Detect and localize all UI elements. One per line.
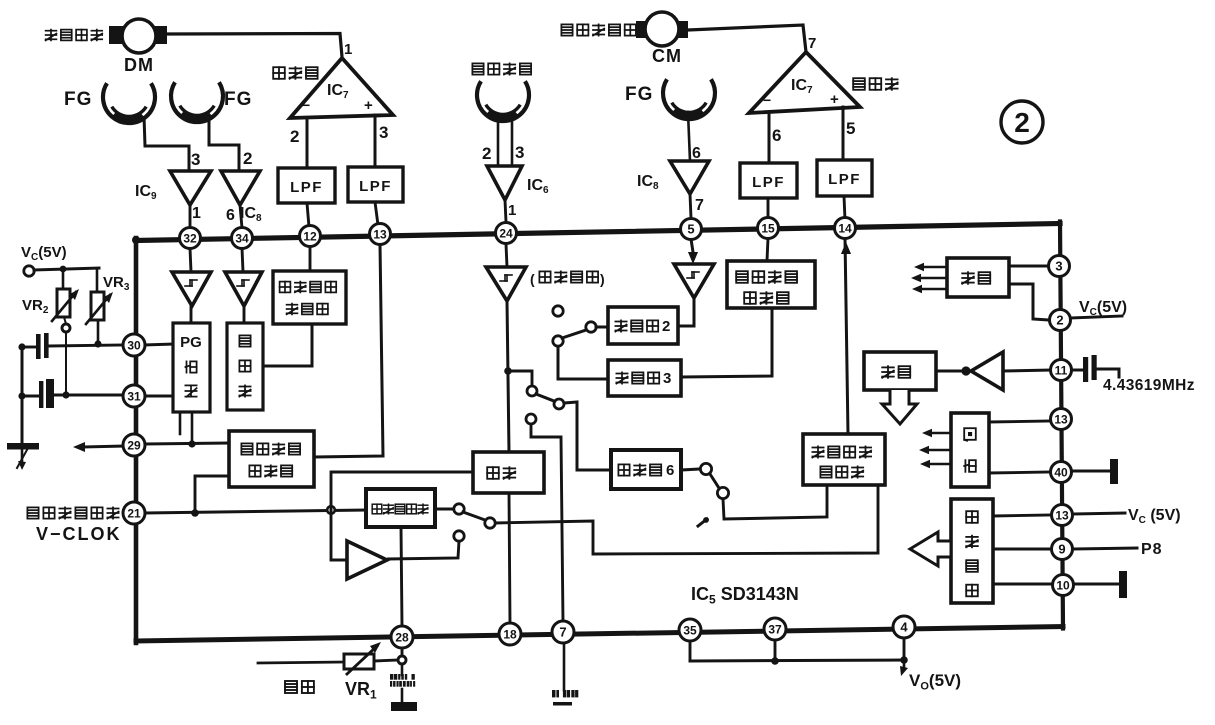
svg-text:VO(5V): VO(5V)	[909, 671, 961, 692]
wire FG-C to IC8R	[688, 112, 690, 161]
switch S5 contact	[717, 487, 728, 498]
block digital phase comparator left (数字相位比较器)	[229, 431, 314, 487]
wire VR2 contact to C2 net	[65, 332, 67, 394]
label 跟踪 (tracking)	[285, 681, 297, 693]
svg-text:V−CLOK: V−CLOK	[36, 524, 122, 544]
wire shaping amp to PG block	[190, 306, 193, 323]
left rail to ground	[21, 347, 24, 446]
svg-text:35: 35	[683, 623, 697, 637]
wire buffer input	[331, 559, 347, 562]
switch S2 pole	[554, 399, 564, 409]
wire pin21 net to buffer/muting	[330, 510, 333, 560]
amp IC9 (FG amp)	[170, 171, 211, 205]
wire pin15 to speed comparator R	[767, 238, 768, 261]
wire S5 to phase comparator R	[723, 485, 827, 519]
wire S4 to phase comparator R bottom	[495, 485, 878, 554]
block muting (静噪)	[473, 452, 544, 493]
amp IC8-right (capstan FG amp)	[670, 161, 709, 194]
wire decoder2 to pin 40	[989, 472, 1050, 473]
terminal circle Vc	[24, 266, 34, 276]
wire decoder to pin 2	[1009, 284, 1049, 320]
switch S3 contact b	[526, 414, 536, 424]
junction pin37/Vo	[771, 657, 779, 665]
IC5 SD3143N package outline	[136, 224, 1060, 241]
arrow tick on wire end	[698, 519, 707, 526]
pickup coil FG-B	[171, 82, 223, 122]
svg-text:3: 3	[515, 143, 524, 162]
op-amp IC7 (left adder)	[290, 58, 393, 118]
LPF block (capstan, left)	[740, 163, 797, 198]
svg-text:7: 7	[559, 625, 566, 640]
svg-text:21: 21	[127, 506, 141, 520]
input arrow at pin 29	[73, 442, 85, 452]
block digital phase comparator right (数字相位比较器)	[803, 434, 885, 485]
junction PG/pin29 net	[188, 440, 195, 447]
pin 30 (left edge)	[123, 334, 145, 356]
svg-text:31: 31	[127, 389, 141, 403]
pin 35 (bottom edge)	[679, 619, 701, 641]
svg-text:37: 37	[768, 622, 782, 636]
shaping amp under pin 34	[225, 272, 262, 306]
junction VR3 bottom	[94, 340, 101, 347]
trimmer VR3	[96, 268, 99, 292]
switch S2 contact a	[527, 386, 537, 396]
wire IC9 out to pin 32	[189, 205, 192, 228]
switch S1 contact to divider-2	[586, 322, 596, 332]
block serial/parallel switch (串并切换)	[951, 499, 993, 603]
wire pin29 to phase comparator L	[145, 443, 229, 444]
svg-text:LPF: LPF	[828, 171, 861, 188]
junction left rail C2	[18, 392, 25, 399]
svg-text:4.43619MHz: 4.43619MHz	[1103, 377, 1195, 394]
switch S4 arm	[463, 512, 485, 520]
wire buffer to clock block	[936, 370, 962, 373]
pin 21 (left edge)	[123, 502, 145, 524]
label 加法器 (adder, right)	[853, 78, 865, 90]
svg-text:32: 32	[183, 231, 197, 245]
pin 13 (top edge)	[370, 224, 391, 245]
pin 28 (bottom edge)	[391, 626, 413, 648]
pin 14 (top edge)	[835, 218, 856, 239]
svg-text:VC (5V): VC (5V)	[1128, 507, 1181, 526]
wire pin14 down to phase comparator R	[845, 238, 848, 434]
terminal bar at pin 10	[1075, 583, 1121, 586]
amp IC8-left (FG amp)	[221, 171, 260, 205]
svg-text:7: 7	[808, 35, 816, 52]
wire pin12 to speed comparator L	[309, 246, 312, 271]
svg-text:IC5 SD3143N: IC5 SD3143N	[691, 584, 799, 607]
svg-text:7: 7	[695, 197, 704, 214]
power label Vc(5V) at pin 13b	[1074, 513, 1125, 514]
wire shaping amp down to muting block	[507, 301, 509, 452]
svg-text:2: 2	[482, 144, 491, 163]
pin 34 (top edge)	[232, 228, 253, 249]
svg-text:+: +	[830, 91, 839, 108]
capacitor C2 (electrolytic)	[22, 395, 38, 398]
pin 18 (bottom edge)	[499, 623, 521, 645]
buffer amp (tracking)	[347, 541, 387, 579]
svg-text:13: 13	[1055, 508, 1069, 522]
wire IC7R pin6 to LPF	[768, 113, 771, 163]
pin 40 (right edge)	[1051, 462, 1072, 483]
svg-text:2: 2	[662, 318, 670, 335]
wire IC7L pin3 to LPF	[374, 115, 377, 167]
pin 12 (top edge)	[300, 226, 321, 247]
LPF block (drum, right)	[348, 167, 403, 202]
capacitor under pin 28 (value smudge)	[401, 664, 404, 675]
svg-text:6: 6	[666, 462, 674, 479]
block PG timing (PG适时)	[173, 323, 210, 412]
junction C2/VR2	[62, 391, 69, 398]
junction circle on pin21 rail	[327, 506, 335, 514]
pin 13 (right edge)	[1052, 505, 1073, 526]
pin 32 (top edge)	[180, 228, 201, 249]
svg-text:15: 15	[761, 221, 775, 235]
stub under PG block	[179, 412, 182, 434]
svg-text:FG: FG	[224, 89, 252, 110]
pin 4 (bottom edge)	[893, 616, 915, 638]
wire pin32 to shaping amp	[190, 248, 191, 272]
svg-text:11: 11	[1055, 363, 1068, 377]
switch contact under VR2	[62, 324, 70, 332]
svg-text:28: 28	[395, 630, 409, 644]
svg-text:3: 3	[191, 150, 200, 169]
decoder-2 output arrows	[922, 429, 932, 437]
capacitor C1	[22, 346, 35, 349]
wire S2 pole to divider-6	[564, 402, 611, 470]
svg-text:(: (	[530, 271, 535, 287]
svg-text:13: 13	[1054, 412, 1068, 426]
svg-text:9: 9	[1058, 542, 1065, 557]
svg-text:13: 13	[373, 227, 387, 241]
pickup coil FG-C	[663, 79, 715, 119]
svg-text:LPF: LPF	[290, 179, 323, 196]
hollow arrow below clock block	[882, 390, 917, 424]
label 主导轴电机 (capstan motor)	[561, 24, 572, 35]
block divider 2 (分频器2)	[608, 307, 678, 344]
svg-text:1: 1	[192, 205, 201, 222]
junction at package top-left corner	[132, 236, 140, 244]
wire VCO to pin 28	[401, 527, 402, 626]
wire Vc to VR2/VR3	[34, 268, 99, 270]
svg-text:12: 12	[303, 229, 317, 243]
switch S4 lower contact	[454, 531, 464, 541]
svg-text:4: 4	[900, 620, 908, 635]
junction on shaping output	[504, 367, 512, 375]
svg-text:6: 6	[772, 126, 781, 145]
svg-text:29: 29	[127, 438, 141, 452]
svg-text:): )	[600, 271, 605, 287]
trimmer VR2	[62, 269, 65, 289]
wire muting to pin 18	[509, 493, 510, 624]
pin 37 (bottom edge)	[764, 618, 786, 640]
svg-text:PG: PG	[180, 334, 202, 351]
pin 5 (top edge)	[681, 219, 702, 240]
shaping amp under pin 32	[172, 272, 211, 306]
svg-text:CM: CM	[652, 46, 682, 66]
block clock (时钟)	[864, 352, 936, 390]
block frequency divider (分频器)	[227, 323, 263, 410]
wire block to pin 10	[993, 583, 1052, 586]
block divider 6 (分频器6)	[611, 450, 681, 489]
shaping amp under pin 24 (整形电路)	[486, 267, 526, 301]
trimmer VR1	[344, 654, 374, 669]
amp IC6 (control head amp)	[487, 166, 522, 200]
wire FG-A to IC9	[144, 116, 189, 171]
wire pin4 to Vo rail	[903, 637, 906, 660]
junction VR2 top	[60, 266, 67, 273]
junction pin21 net A	[191, 509, 199, 517]
pin 31 (left edge)	[123, 385, 145, 407]
motor DM	[109, 26, 124, 44]
pin 9 (right edge)	[1052, 539, 1073, 560]
wire pin 7 to ground cap	[563, 642, 566, 690]
svg-text:VC(5V): VC(5V)	[1079, 299, 1127, 318]
svg-text:1: 1	[344, 41, 352, 58]
label 加法器 (adder, left)	[273, 67, 285, 79]
block sample-hold VCO (取样脉冲器)	[366, 489, 435, 527]
pin 3 (right edge)	[1049, 256, 1070, 277]
block decoder top (解码)	[947, 258, 1009, 297]
svg-text:2: 2	[1056, 313, 1063, 328]
block decoder bottom (解码)	[951, 413, 989, 487]
switch S2 wire from junction	[508, 371, 532, 386]
pin 10 (right edge)	[1053, 575, 1074, 596]
svg-text:1: 1	[508, 202, 516, 219]
decoder output arrows	[914, 263, 924, 271]
wire control head to IC6 (pair)	[497, 116, 500, 166]
svg-text:5: 5	[846, 119, 855, 138]
svg-text:DM: DM	[124, 55, 154, 75]
wire pin34 to shaping amp	[242, 248, 243, 272]
svg-text:−: −	[763, 92, 771, 108]
svg-text:6: 6	[226, 207, 235, 224]
wire CM to IC7R pin 7	[688, 25, 806, 52]
pin 2 (right edge)	[1050, 310, 1071, 331]
svg-text:3: 3	[379, 123, 388, 142]
svg-text:2: 2	[243, 149, 252, 168]
wire VCO to switch S4	[435, 508, 454, 511]
wire IC8L out to pin 34	[240, 205, 242, 228]
wire divider3 to speed comparator R	[681, 308, 772, 377]
wire phase comparator L output to pin 13 net	[314, 244, 383, 457]
switch S1 common	[553, 336, 563, 346]
figure number 2 (circled)	[1001, 101, 1043, 143]
switch S2 arm	[536, 394, 554, 401]
switch S5 pole	[700, 463, 711, 474]
wire speed comparator L to divider	[263, 324, 312, 366]
wire shaping amp to divider block	[243, 306, 246, 323]
svg-text:3: 3	[663, 370, 671, 387]
wire buffer to pin 11	[1003, 370, 1051, 371]
wire pin31 to PG block	[145, 395, 173, 398]
op-amp IC7 (right adder)	[749, 52, 860, 113]
arrow up into pin 14	[841, 242, 851, 254]
svg-text:18: 18	[503, 627, 517, 641]
wire IC6 out to pin 24	[505, 200, 506, 222]
svg-text:40: 40	[1054, 465, 1068, 479]
wire phase comparator L to pin21 net	[195, 476, 229, 512]
wire block to pin 13b	[993, 515, 1051, 516]
wire pin37 to Vo rail	[774, 639, 777, 661]
wire S3 contact to pin 7	[531, 424, 563, 622]
wire LPF to pin 12	[307, 203, 309, 227]
wire pin35 to Vo rail	[689, 640, 692, 661]
pin 11 (right edge)	[1051, 360, 1072, 381]
oscillator buffer amp	[971, 352, 1003, 390]
ground symbol (chassis)	[7, 443, 39, 450]
switch S1 open contact	[553, 306, 563, 316]
terminal circle under pin 28	[398, 656, 406, 664]
pin 24 (top edge)	[496, 223, 517, 244]
svg-text:24: 24	[499, 226, 513, 240]
wire PG block to pin29 net	[191, 412, 194, 443]
wire pin24 to shaping amp	[506, 244, 507, 267]
switch S1 arm	[562, 330, 586, 338]
pin 15 (top edge)	[758, 218, 779, 239]
wire DM to IC7 adder pin 1	[167, 34, 342, 58]
Vo supply rail	[690, 660, 904, 661]
svg-text:34: 34	[235, 231, 249, 245]
block divider 3 (分频器3)	[608, 360, 681, 396]
hollow arrow at serial/parallel block	[910, 532, 951, 566]
head-switch label 磁头开关信号	[27, 507, 38, 518]
pin 13 (right edge)	[1051, 409, 1072, 430]
wire divider2 out to shaping amp R output	[678, 298, 694, 326]
wire pin28 to trimmer node	[401, 647, 404, 656]
wire LPF to pin 13	[375, 202, 378, 225]
svg-text:14: 14	[838, 221, 852, 235]
svg-text:5: 5	[687, 222, 694, 237]
net label P8 at pin 9	[1074, 548, 1137, 549]
wire pin5 to shaping amp with arrow	[691, 239, 693, 252]
junction pin4/Vo	[900, 656, 908, 664]
power label Vc(5V) at pin 2	[1071, 316, 1122, 318]
wire decoder2 to pin 13	[989, 421, 1051, 422]
svg-text:+: +	[364, 97, 373, 114]
motor CM	[636, 21, 650, 38]
wire S1 common to divider-3	[558, 346, 608, 379]
terminal bar at pin 40	[1072, 470, 1112, 473]
wire IC7L pin2 to LPF	[306, 118, 309, 168]
svg-text:P8: P8	[1141, 541, 1163, 558]
svg-text:30: 30	[127, 338, 141, 352]
pin 29 (left edge)	[123, 434, 145, 456]
wire FG-B to IC8	[209, 115, 239, 170]
wire pin 21 rail	[145, 510, 366, 513]
svg-text:2: 2	[1014, 107, 1030, 138]
wire IC8R out to pin 5	[690, 194, 691, 218]
label 控制磁头 (control head)	[472, 63, 483, 74]
LPF block (drum, left)	[278, 168, 335, 203]
shaping amp under pin 5	[674, 264, 714, 298]
label 磁鼓电极 (drum motor electrode)	[46, 30, 57, 32]
wire buffer out to S4 lower contact	[387, 541, 459, 559]
svg-text:−: −	[302, 97, 310, 113]
svg-text:VC(5V): VC(5V)	[21, 244, 67, 263]
wire IC7R pin5 to LPF	[842, 107, 845, 160]
junction left rail top	[18, 343, 25, 350]
switch S4 pole	[454, 504, 464, 514]
svg-text:10: 10	[1056, 578, 1070, 592]
wire LPF to pin 14	[844, 196, 845, 220]
value smudge under pin 7	[552, 690, 556, 697]
svg-text:2: 2	[290, 127, 299, 146]
control head coil	[477, 81, 529, 121]
block digital speed comparator left (数字速度比较器)	[273, 271, 346, 324]
pickup coil FG-A	[103, 83, 155, 123]
pin 7 (bottom edge)	[552, 621, 574, 643]
svg-text:FG: FG	[625, 84, 653, 105]
wire pin30 to PG block	[144, 344, 173, 345]
wire to VR1 (tracking input)	[258, 662, 344, 663]
crystal X1 4.43619MHz	[1071, 369, 1082, 372]
svg-text:LPF: LPF	[359, 178, 392, 195]
block digital speed comparator right (数字速度比较器)	[727, 261, 815, 308]
switch S5 arm	[710, 474, 719, 488]
wire block to pin 9	[993, 548, 1051, 551]
svg-text:3: 3	[1055, 259, 1062, 274]
wire decoder to pin 3	[1009, 265, 1048, 268]
wire LPF to pin 15	[767, 198, 770, 220]
switch S4 contact	[485, 518, 495, 528]
svg-text:LPF: LPF	[752, 174, 785, 191]
power label Vo(5V)	[903, 660, 906, 668]
svg-text:FG: FG	[64, 89, 92, 110]
LPF block (capstan, right)	[817, 160, 872, 196]
